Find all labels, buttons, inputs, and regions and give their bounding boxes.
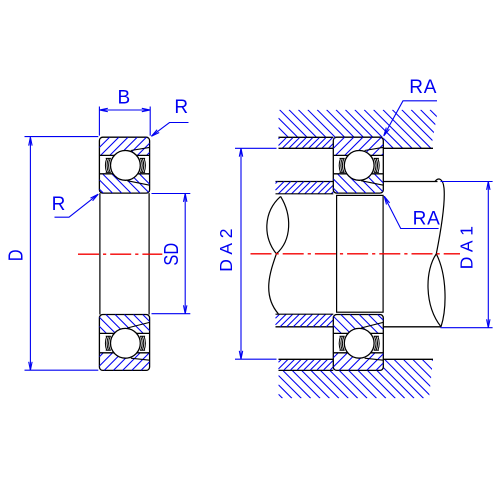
shaft break line (left end): [267, 196, 281, 314]
svg-text:D: D: [4, 249, 27, 261]
housing section (top), hatched: [279, 110, 439, 149]
leader RA (shaft fillet radius, middle): [384, 196, 438, 228]
bearing ring side faces, left view: [100, 193, 149, 314]
shaft shoulder strip (lower left): [276, 314, 334, 327]
svg-text:RA: RA: [409, 77, 437, 98]
dimension SD (shoulder diameter): [152, 194, 191, 314]
shaft outline (outside diameter lines): [276, 182, 442, 327]
housing section (bottom), hatched: [279, 359, 434, 398]
leader R (inner ring corner radius, left): [55, 194, 99, 217]
dimension B (width) with extension lines and arrows: [99, 107, 150, 136]
leader RA (housing fillet radius, top): [384, 101, 437, 136]
shaft break line (right end): [428, 179, 444, 327]
housing shoulder strip (bottom): [279, 359, 334, 370]
svg-text:DA1: DA1: [457, 221, 477, 269]
dimension DA1 (shaft shoulder diameter): [441, 182, 493, 328]
dimension D (bearing outside diameter): [25, 137, 99, 371]
centerline, left view: [78, 253, 162, 255]
centerline, right view: [251, 253, 461, 255]
leader R (outer ring corner radius, top right): [151, 123, 188, 137]
svg-text:R: R: [174, 97, 188, 118]
svg-text:RA: RA: [413, 208, 441, 229]
shaft seat silhouette between bearing rings: [337, 195, 384, 312]
housing shoulder strip (top): [279, 138, 334, 148]
dimension DA2 (housing shoulder diameter): [235, 148, 277, 359]
shaft shoulder strip (upper left): [276, 182, 334, 194]
svg-text:R: R: [52, 194, 66, 215]
svg-text:SD: SD: [159, 243, 182, 266]
svg-text:DA2: DA2: [216, 224, 236, 272]
svg-text:B: B: [117, 88, 130, 109]
